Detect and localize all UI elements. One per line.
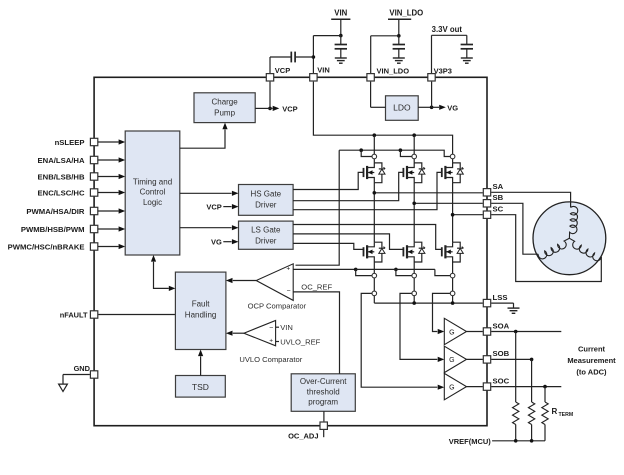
svg-text:−: − bbox=[269, 325, 273, 332]
svg-text:Driver: Driver bbox=[255, 236, 277, 245]
svg-text:R: R bbox=[552, 407, 558, 416]
svg-text:nSLEEP: nSLEEP bbox=[55, 138, 85, 147]
svg-text:OC_ADJ: OC_ADJ bbox=[288, 431, 318, 440]
svg-text:Control: Control bbox=[140, 188, 166, 197]
svg-text:ENA/LSA/HA: ENA/LSA/HA bbox=[38, 156, 85, 165]
svg-text:Fault: Fault bbox=[192, 300, 211, 309]
svg-text:TERM: TERM bbox=[559, 412, 574, 418]
svg-text:UVLO_REF: UVLO_REF bbox=[280, 338, 320, 347]
svg-text:+: + bbox=[286, 265, 290, 272]
svg-text:Measurement: Measurement bbox=[567, 356, 616, 365]
svg-text:+: + bbox=[269, 338, 273, 345]
svg-text:UVLO Comparator: UVLO Comparator bbox=[239, 355, 302, 364]
svg-text:VIN: VIN bbox=[280, 323, 293, 332]
svg-text:LDO: LDO bbox=[393, 103, 411, 113]
svg-text:VIN_LDO: VIN_LDO bbox=[377, 66, 410, 75]
svg-text:VIN: VIN bbox=[334, 9, 347, 18]
svg-text:VG: VG bbox=[447, 104, 458, 113]
svg-text:−: − bbox=[287, 288, 291, 295]
svg-text:Charge: Charge bbox=[211, 97, 238, 106]
svg-text:Timing and: Timing and bbox=[133, 177, 172, 186]
svg-text:SOA: SOA bbox=[493, 321, 510, 330]
svg-text:SA: SA bbox=[493, 182, 504, 191]
svg-text:Logic: Logic bbox=[143, 198, 162, 207]
svg-text:SB: SB bbox=[493, 193, 504, 202]
svg-text:TSD: TSD bbox=[192, 382, 209, 392]
svg-text:PWMA/HSA/DIR: PWMA/HSA/DIR bbox=[26, 207, 85, 216]
svg-text:PWMB/HSB/PWM: PWMB/HSB/PWM bbox=[21, 225, 85, 234]
svg-text:Pump: Pump bbox=[214, 108, 235, 117]
svg-text:VREF(MCU): VREF(MCU) bbox=[449, 437, 492, 446]
svg-text:OC_REF: OC_REF bbox=[301, 282, 332, 291]
svg-text:VG: VG bbox=[211, 238, 222, 247]
svg-text:ENC/LSC/HC: ENC/LSC/HC bbox=[38, 189, 85, 198]
svg-text:GND: GND bbox=[74, 364, 91, 373]
svg-text:LS Gate: LS Gate bbox=[251, 225, 281, 234]
svg-text:SOB: SOB bbox=[493, 349, 510, 358]
svg-text:VCP: VCP bbox=[206, 203, 221, 212]
svg-text:G: G bbox=[449, 357, 454, 364]
svg-text:(to ADC): (to ADC) bbox=[576, 368, 607, 377]
svg-text:Over-Current: Over-Current bbox=[300, 377, 347, 386]
svg-text:LSS: LSS bbox=[493, 293, 508, 302]
svg-text:G: G bbox=[449, 329, 454, 336]
svg-text:Handling: Handling bbox=[185, 311, 217, 320]
svg-text:Driver: Driver bbox=[255, 201, 277, 210]
svg-text:OCP Comparator: OCP Comparator bbox=[248, 302, 307, 311]
svg-text:VCP: VCP bbox=[282, 105, 297, 114]
svg-text:HS Gate: HS Gate bbox=[250, 190, 281, 199]
svg-text:VIN_LDO: VIN_LDO bbox=[389, 9, 423, 18]
svg-text:SOC: SOC bbox=[493, 376, 510, 385]
svg-text:VCP: VCP bbox=[275, 66, 290, 75]
svg-text:program: program bbox=[308, 398, 338, 407]
svg-text:VIN: VIN bbox=[317, 66, 330, 75]
svg-text:SC: SC bbox=[493, 205, 504, 214]
svg-text:ENB/LSB/HB: ENB/LSB/HB bbox=[38, 173, 85, 182]
svg-text:V3P3: V3P3 bbox=[434, 66, 452, 75]
svg-text:threshold: threshold bbox=[307, 387, 340, 396]
svg-text:G: G bbox=[449, 384, 454, 391]
svg-text:PWMC/HSC/nBRAKE: PWMC/HSC/nBRAKE bbox=[8, 243, 85, 252]
svg-text:Current: Current bbox=[578, 345, 606, 354]
svg-text:3.3V out: 3.3V out bbox=[432, 25, 463, 34]
svg-text:nFAULT: nFAULT bbox=[60, 311, 88, 320]
